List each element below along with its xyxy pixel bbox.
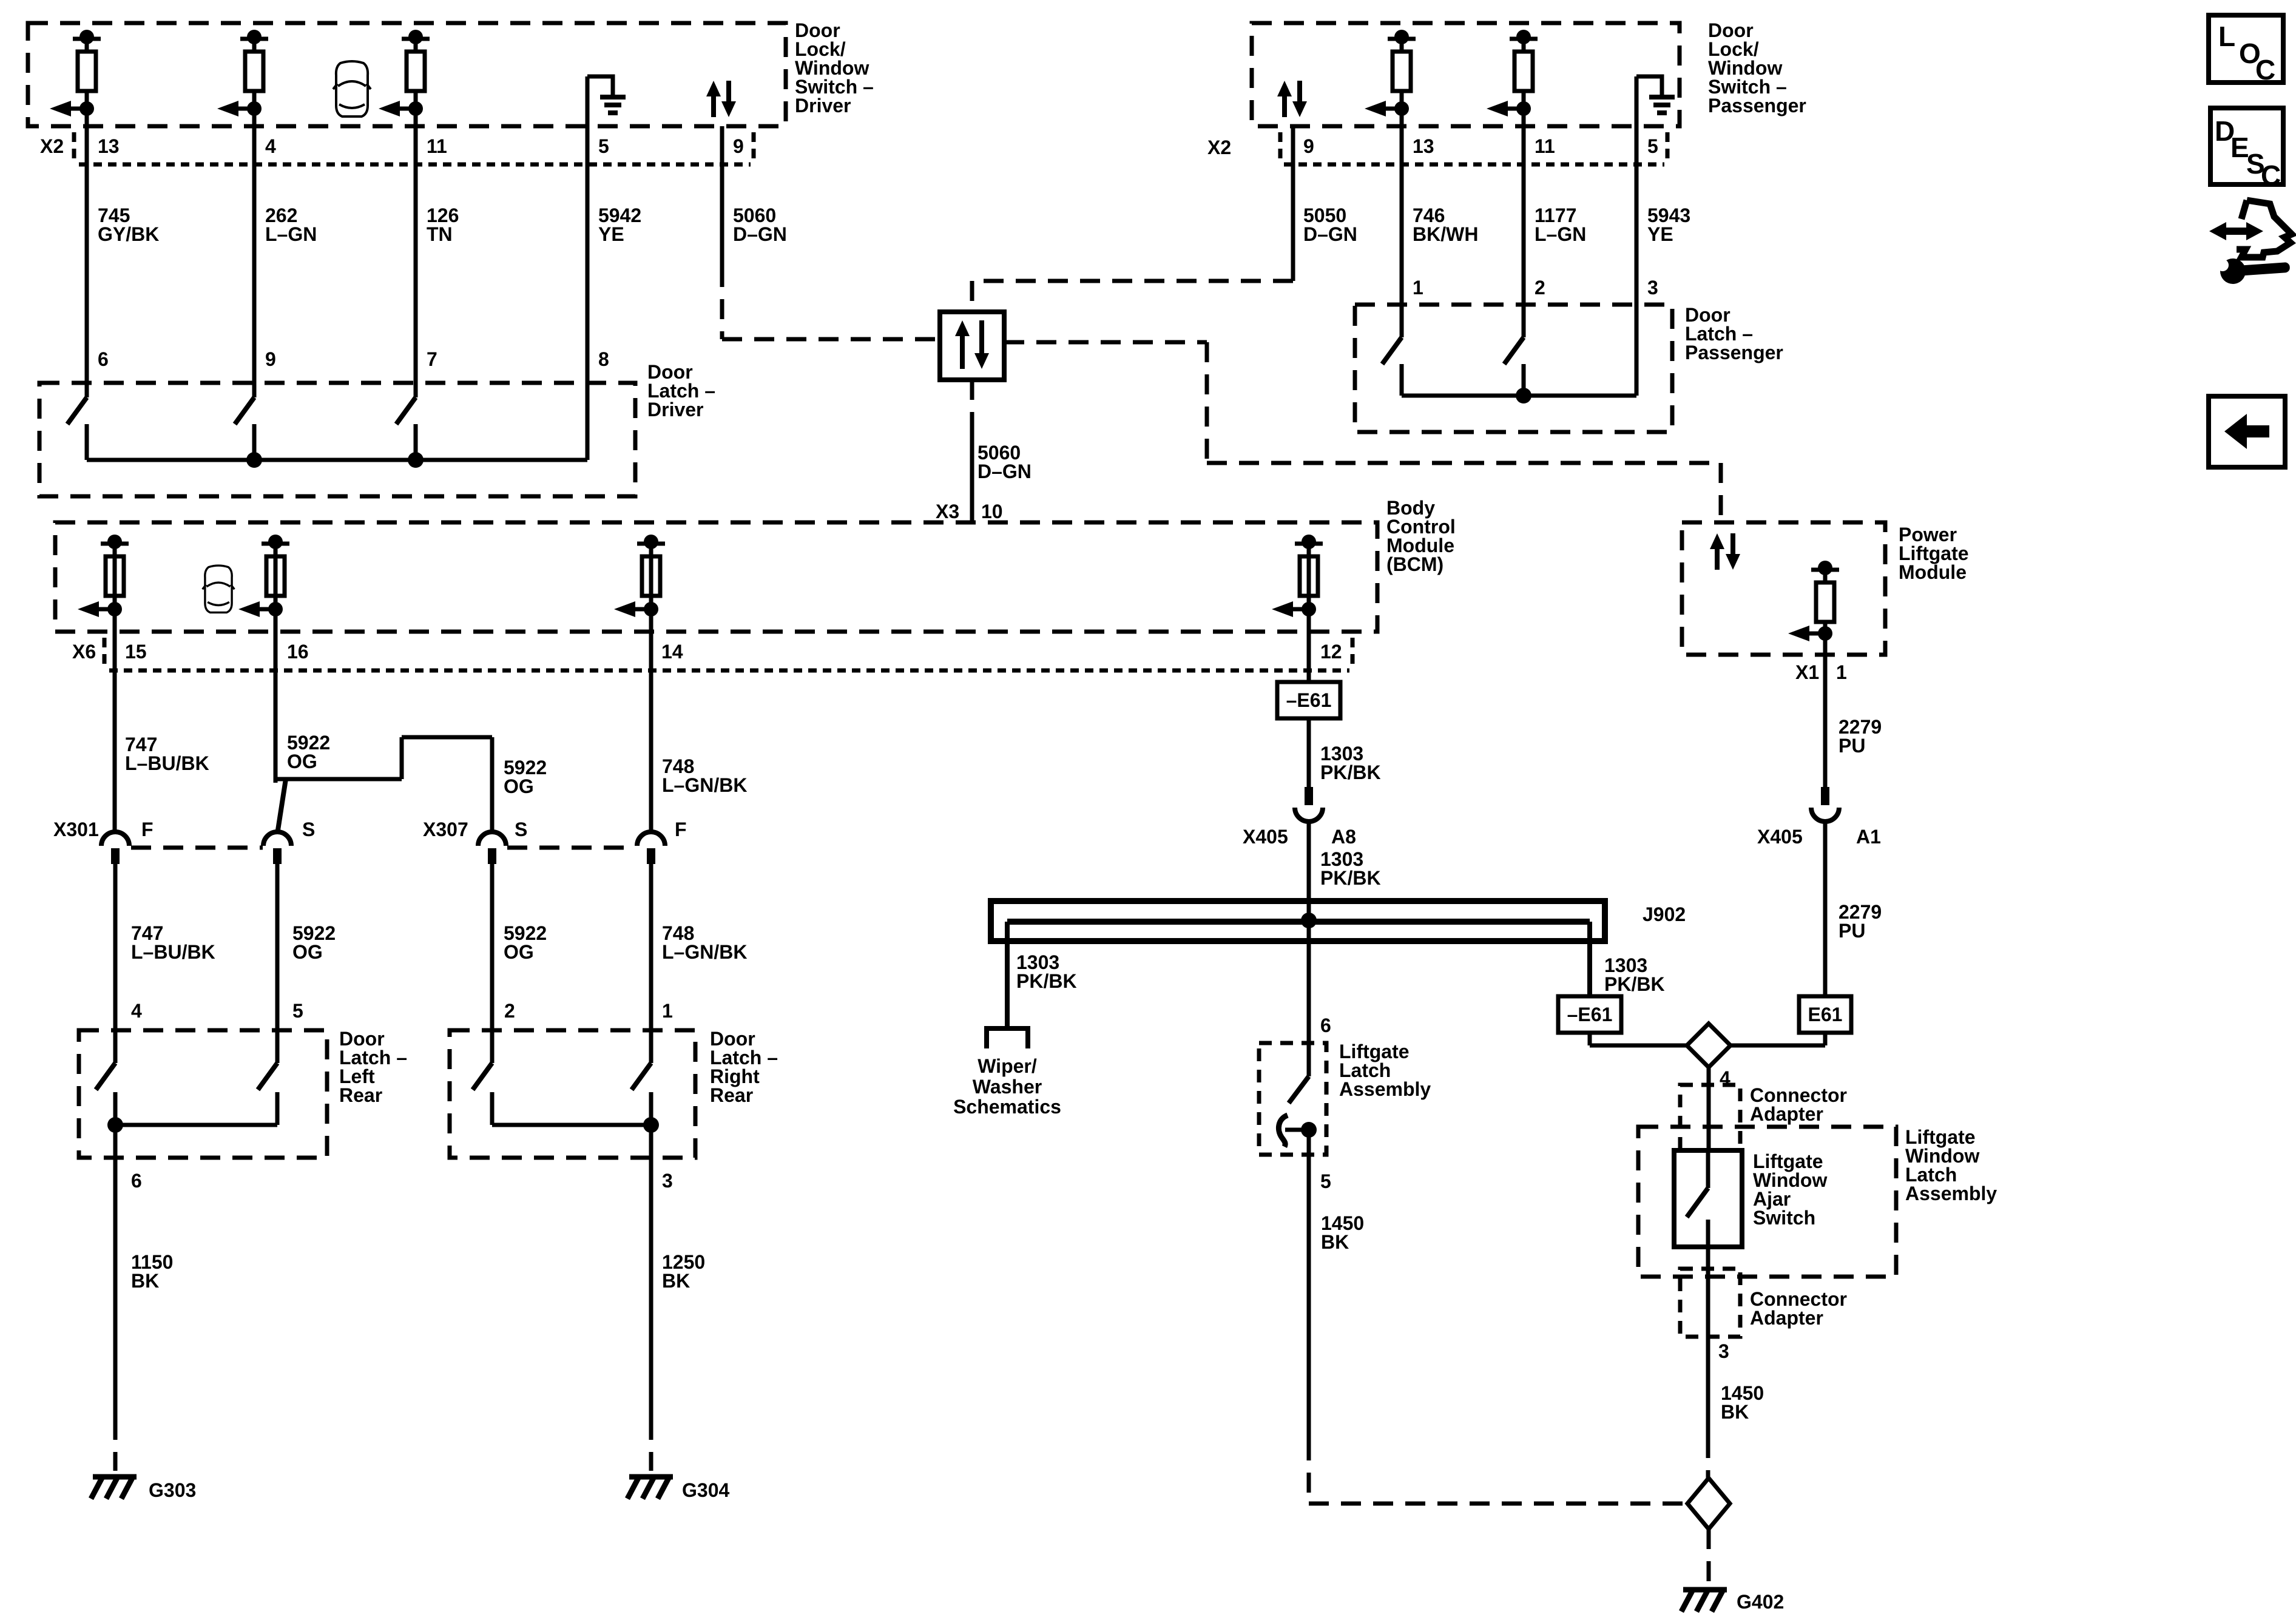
svg-text:15: 15 — [125, 641, 147, 663]
svg-text:D–GN: D–GN — [1303, 223, 1357, 245]
svg-text:X301: X301 — [53, 819, 99, 840]
svg-text:Switch: Switch — [1753, 1207, 1815, 1229]
svg-text:8: 8 — [598, 348, 609, 370]
svg-text:PU: PU — [1838, 735, 1865, 757]
svg-text:10: 10 — [981, 501, 1003, 522]
svg-text:1: 1 — [1836, 661, 1847, 683]
svg-text:11: 11 — [1535, 135, 1555, 157]
svg-text:13: 13 — [1413, 135, 1434, 157]
svg-text:Driver: Driver — [647, 399, 704, 420]
svg-text:BK: BK — [1321, 1231, 1349, 1253]
svg-text:OG: OG — [292, 941, 323, 963]
svg-text:X307: X307 — [423, 819, 468, 840]
svg-text:3: 3 — [662, 1170, 673, 1192]
svg-text:–E61: –E61 — [1286, 689, 1332, 711]
svg-text:4: 4 — [265, 135, 276, 157]
svg-text:E61: E61 — [1808, 1004, 1843, 1025]
svg-text:S: S — [515, 819, 527, 840]
svg-text:L–GN: L–GN — [1535, 223, 1586, 245]
svg-text:X2: X2 — [1207, 137, 1231, 158]
svg-text:BK: BK — [662, 1270, 690, 1292]
svg-text:BK/WH: BK/WH — [1413, 223, 1478, 245]
svg-text:7: 7 — [427, 348, 437, 370]
svg-text:L–GN/BK: L–GN/BK — [662, 941, 747, 963]
svg-text:9: 9 — [265, 348, 276, 370]
svg-text:X405: X405 — [1757, 826, 1803, 848]
svg-text:L–GN: L–GN — [265, 223, 317, 245]
svg-text:6: 6 — [98, 348, 109, 370]
svg-text:L–BU/BK: L–BU/BK — [125, 752, 209, 774]
svg-text:D–GN: D–GN — [733, 223, 787, 245]
svg-text:OG: OG — [504, 941, 534, 963]
svg-text:BK: BK — [131, 1270, 159, 1292]
svg-text:5: 5 — [1320, 1170, 1331, 1192]
svg-text:C: C — [2261, 160, 2281, 191]
svg-text:G402: G402 — [1737, 1591, 1784, 1613]
svg-text:L–GN/BK: L–GN/BK — [662, 774, 747, 796]
svg-text:PK/BK: PK/BK — [1016, 970, 1077, 992]
svg-text:PK/BK: PK/BK — [1320, 761, 1381, 783]
svg-text:BK: BK — [1721, 1401, 1749, 1423]
svg-text:Adapter: Adapter — [1750, 1103, 1823, 1125]
svg-text:4: 4 — [131, 1000, 142, 1022]
svg-text:A1: A1 — [1856, 826, 1881, 848]
svg-text:X6: X6 — [72, 641, 96, 663]
svg-text:Assembly: Assembly — [1905, 1183, 1997, 1204]
svg-text:Assembly: Assembly — [1339, 1078, 1431, 1100]
svg-text:12: 12 — [1320, 641, 1342, 663]
svg-text:YE: YE — [598, 223, 624, 245]
svg-text:5: 5 — [1647, 135, 1658, 157]
svg-text:X405: X405 — [1243, 826, 1288, 848]
svg-text:G303: G303 — [149, 1479, 196, 1501]
svg-text:F: F — [141, 819, 154, 840]
svg-text:5: 5 — [292, 1000, 303, 1022]
svg-text:X2: X2 — [40, 135, 64, 157]
svg-text:1: 1 — [662, 1000, 673, 1022]
svg-text:D–GN: D–GN — [977, 461, 1032, 482]
svg-text:PK/BK: PK/BK — [1604, 973, 1665, 995]
svg-text:L: L — [2218, 21, 2235, 52]
svg-text:PU: PU — [1838, 920, 1865, 942]
svg-text:1: 1 — [1413, 277, 1423, 299]
svg-text:2: 2 — [504, 1000, 515, 1022]
svg-text:6: 6 — [1320, 1014, 1331, 1036]
svg-text:9: 9 — [1303, 135, 1314, 157]
svg-text:Passenger: Passenger — [1685, 342, 1783, 363]
svg-text:X1: X1 — [1795, 661, 1819, 683]
svg-text:J902: J902 — [1643, 903, 1686, 925]
svg-text:OG: OG — [287, 751, 317, 772]
svg-text:PK/BK: PK/BK — [1320, 867, 1381, 889]
svg-text:16: 16 — [287, 641, 309, 663]
svg-text:YE: YE — [1647, 223, 1673, 245]
svg-text:Rear: Rear — [339, 1084, 382, 1106]
svg-text:6: 6 — [131, 1170, 142, 1192]
svg-text:X3: X3 — [936, 501, 959, 522]
svg-text:Wiper/: Wiper/ — [977, 1055, 1037, 1077]
svg-text:9: 9 — [733, 135, 744, 157]
svg-text:GY/BK: GY/BK — [98, 223, 159, 245]
svg-text:Driver: Driver — [795, 95, 851, 116]
svg-text:TN: TN — [427, 223, 453, 245]
svg-text:C: C — [2255, 54, 2275, 86]
svg-text:(BCM): (BCM) — [1386, 553, 1443, 575]
svg-text:2: 2 — [1535, 277, 1545, 299]
svg-text:5: 5 — [598, 135, 609, 157]
svg-text:F: F — [675, 819, 687, 840]
svg-text:14: 14 — [661, 641, 683, 663]
svg-text:11: 11 — [427, 135, 447, 157]
svg-text:L–BU/BK: L–BU/BK — [131, 941, 215, 963]
svg-text:OG: OG — [504, 775, 534, 797]
svg-text:Rear: Rear — [710, 1084, 753, 1106]
svg-text:Washer: Washer — [973, 1076, 1042, 1098]
svg-text:Schematics: Schematics — [953, 1096, 1061, 1118]
svg-text:A8: A8 — [1331, 826, 1356, 848]
svg-text:Adapter: Adapter — [1750, 1307, 1823, 1329]
svg-text:Passenger: Passenger — [1708, 95, 1806, 116]
svg-text:S: S — [302, 819, 315, 840]
svg-text:Module: Module — [1899, 561, 1967, 583]
svg-text:13: 13 — [98, 135, 120, 157]
svg-text:G304: G304 — [682, 1479, 729, 1501]
svg-text:–E61: –E61 — [1567, 1004, 1613, 1025]
svg-text:3: 3 — [1718, 1340, 1729, 1362]
svg-text:3: 3 — [1647, 277, 1658, 299]
